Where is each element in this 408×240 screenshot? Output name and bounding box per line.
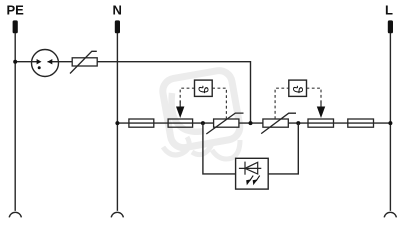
svg-text:PE: PE <box>7 3 25 18</box>
theta box 2 <box>289 80 307 96</box>
disconnect rect 3 <box>308 119 334 127</box>
dashed wire thermal monitor 1 <box>180 88 226 119</box>
node PE junction <box>13 60 17 64</box>
socket contact N <box>111 212 123 217</box>
varistor PE branch <box>70 51 97 73</box>
arrow of thermal disconnect 1 <box>176 101 184 118</box>
terminal bar N <box>115 20 120 33</box>
node N bus junction <box>115 121 119 125</box>
fuse rect 1 <box>129 119 154 127</box>
varistor 2 <box>261 113 296 133</box>
background watermark (decorative) <box>161 69 242 159</box>
main bus N to L <box>117 122 390 124</box>
fuse rect 4 <box>348 119 374 127</box>
arrow of thermal disconnect 2 <box>317 101 325 118</box>
spark gap F1 (gas discharge tube) <box>32 50 59 77</box>
svg-text:ϑ: ϑ <box>196 86 212 94</box>
socket contact L <box>384 212 396 217</box>
dashed wire thermal monitor 2 <box>275 88 321 119</box>
terminal bar L <box>388 20 393 33</box>
socket contact PE <box>9 212 21 217</box>
node L bus junction <box>388 121 392 125</box>
node junction right of varistor 2 <box>296 121 300 125</box>
wire PE branch horizontal to corner, down to bus <box>15 62 250 123</box>
terminal bar PE <box>13 20 18 33</box>
LED indicator box <box>236 158 269 189</box>
LED emission arrows <box>246 176 260 186</box>
wire N vertical <box>116 33 118 211</box>
disconnect rect 2 <box>168 119 193 127</box>
wire PE vertical <box>14 33 16 211</box>
theta box 1 <box>195 80 213 96</box>
node junction left of varistor 1 <box>201 121 205 125</box>
varistor 1 <box>206 113 243 134</box>
wire L vertical <box>389 33 391 211</box>
svg-text:ϑ: ϑ <box>290 86 306 94</box>
node junction PE-branch on bus <box>249 121 253 125</box>
svg-text:N: N <box>113 3 122 18</box>
svg-text:L: L <box>385 3 393 18</box>
LED diode <box>239 162 261 175</box>
wire LED branch <box>203 123 298 174</box>
